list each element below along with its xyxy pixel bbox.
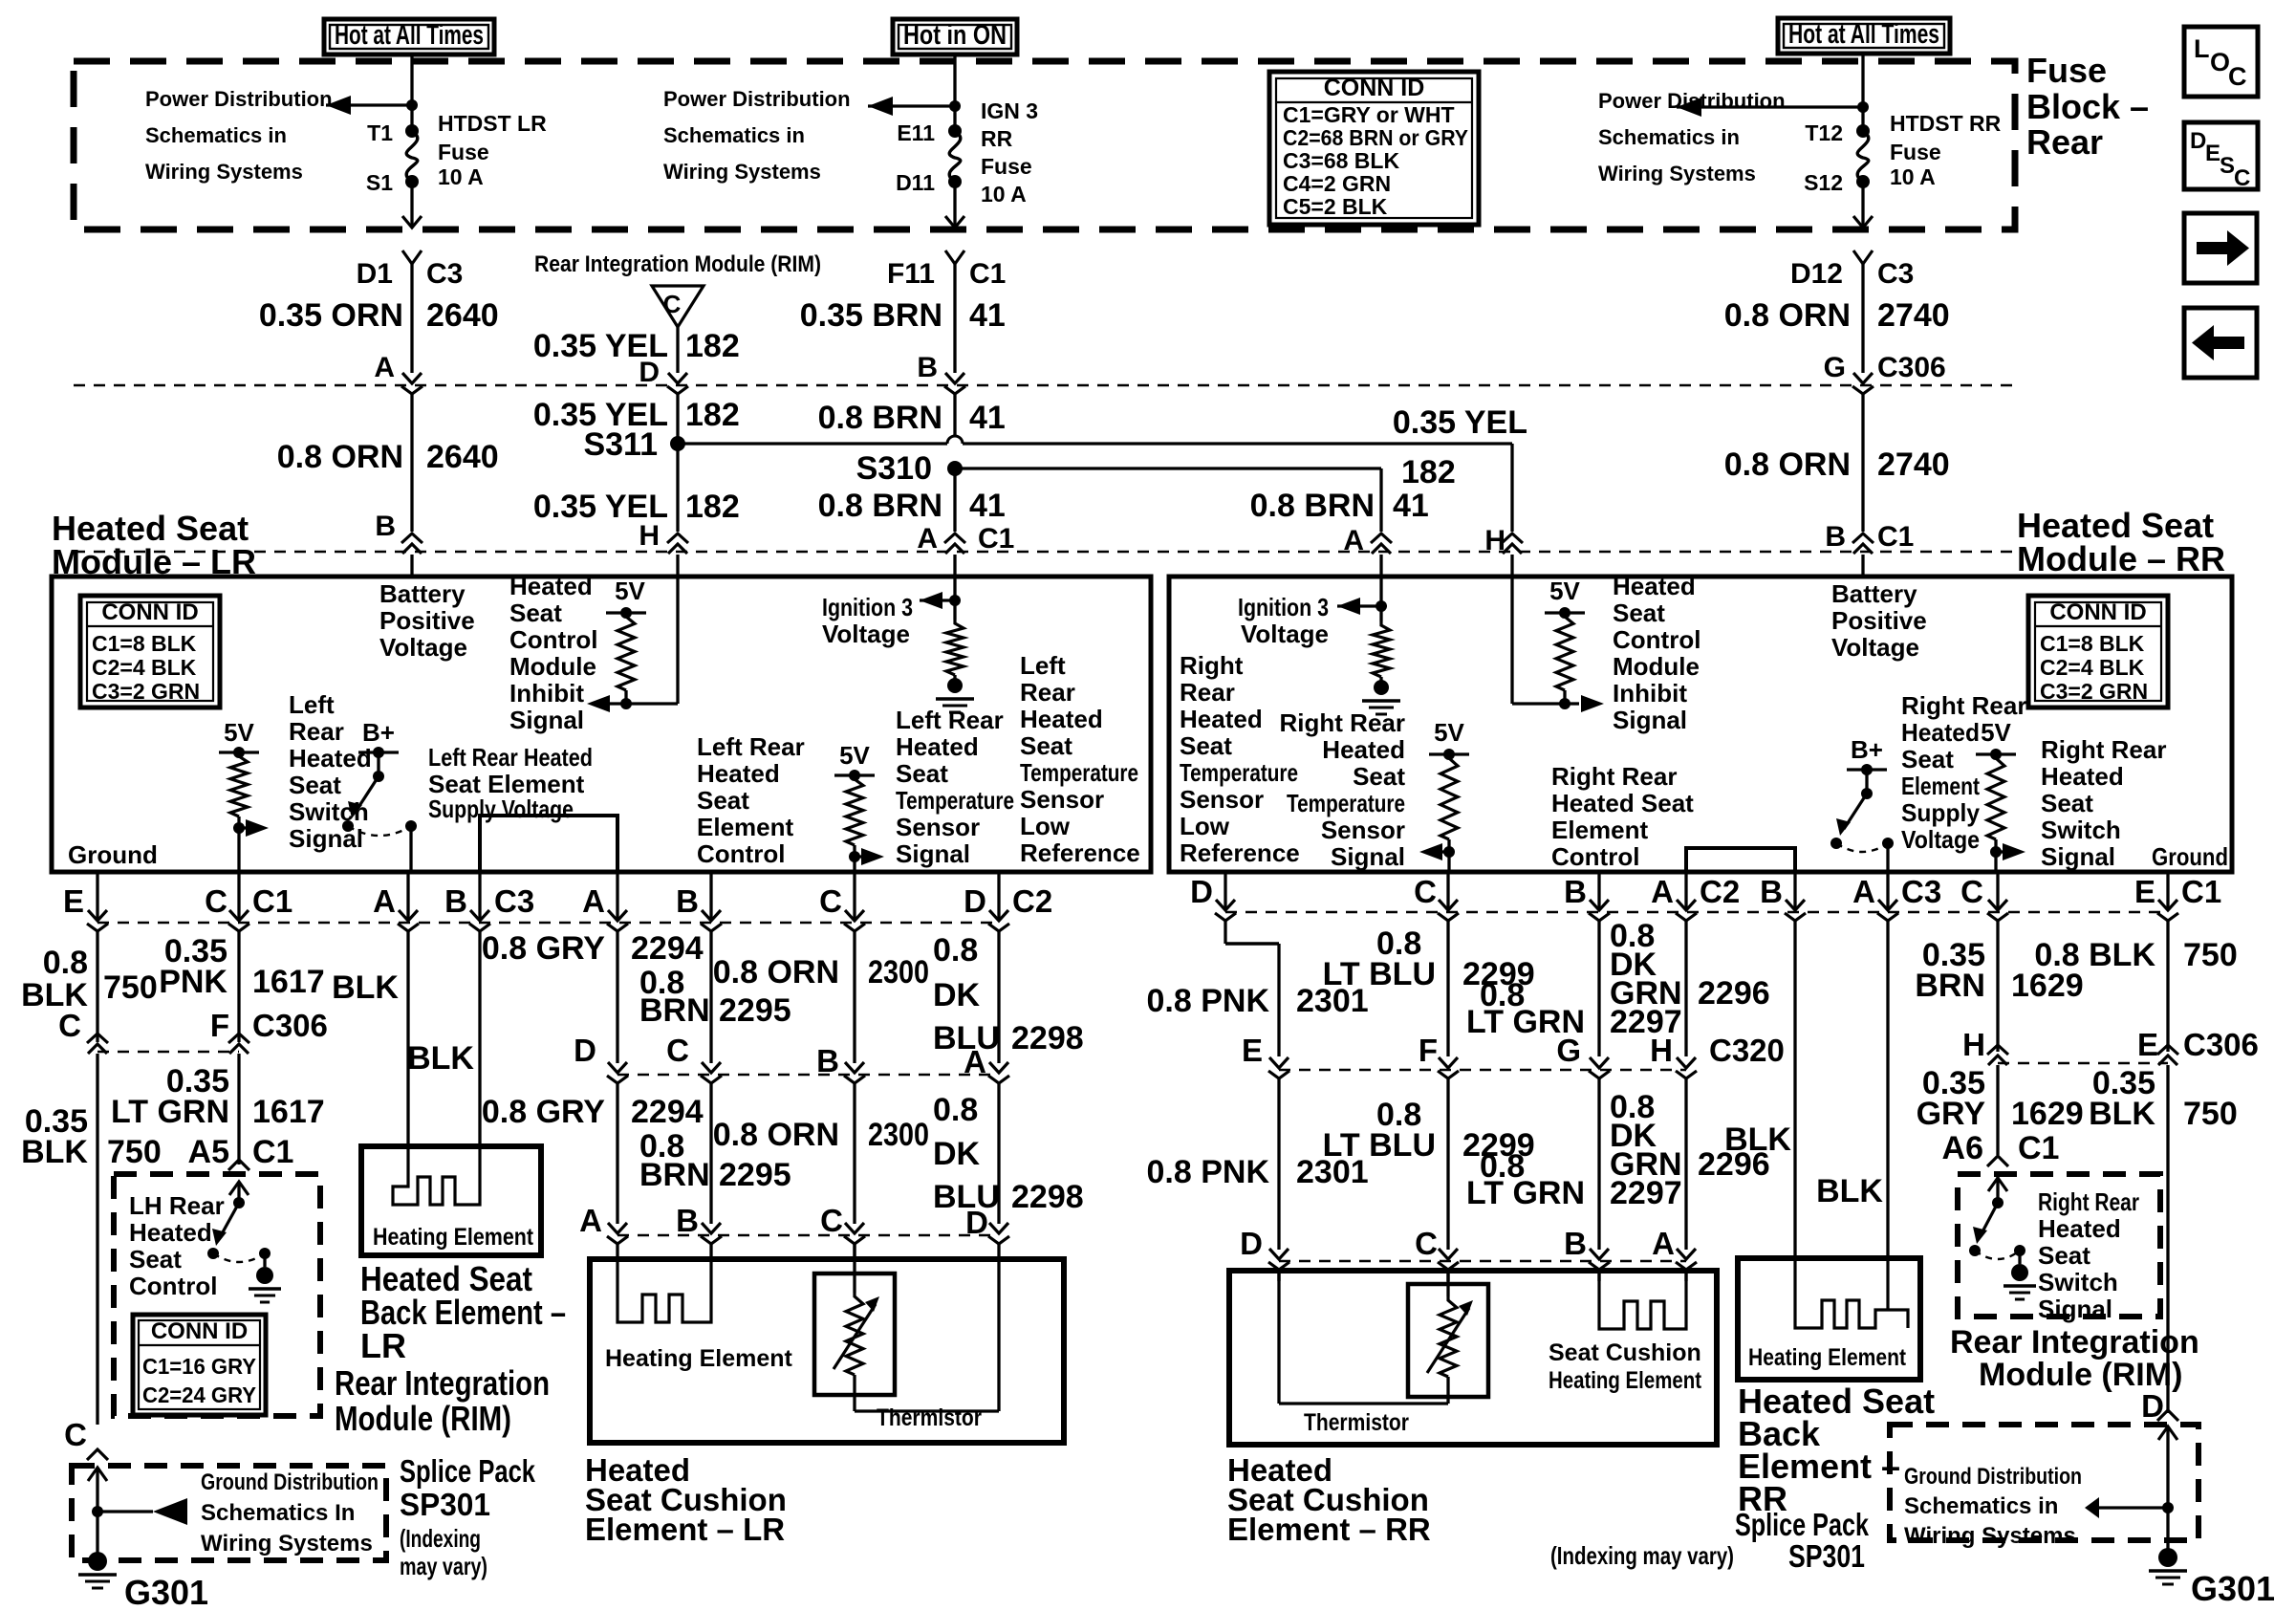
svg-text:182: 182 bbox=[685, 328, 740, 364]
svg-text:BRN: BRN bbox=[639, 992, 710, 1029]
svg-text:Element – RR: Element – RR bbox=[1227, 1512, 1431, 1547]
switch right rear heated seat bbox=[1996, 1176, 1999, 1203]
LOC icon box bbox=[2184, 27, 2258, 97]
wire BRN 41 fuse block to line1 bbox=[945, 250, 964, 264]
svg-text:F11: F11 bbox=[887, 258, 935, 290]
ground G301 LR bbox=[88, 1552, 107, 1571]
svg-text:0.8 BRN: 0.8 BRN bbox=[1250, 488, 1375, 524]
power distribution branch arrow LR bbox=[326, 103, 412, 106]
svg-text:G301: G301 bbox=[2191, 1569, 2275, 1608]
svg-text:Heated: Heated bbox=[289, 744, 372, 773]
wire GRY 2294 pin A2 to line4b bbox=[616, 872, 618, 921]
svg-text:Module: Module bbox=[509, 652, 596, 681]
svg-text:A: A bbox=[582, 883, 605, 919]
CONN ID table fuse block bbox=[1269, 72, 1479, 225]
svg-text:Rear: Rear bbox=[1020, 678, 1075, 707]
svg-text:C: C bbox=[2228, 62, 2247, 91]
svg-text:Seat: Seat bbox=[1613, 599, 1665, 627]
svg-text:Fuse: Fuse bbox=[438, 140, 489, 164]
svg-text:Rear Integration Module (RIM): Rear Integration Module (RIM) bbox=[534, 251, 821, 277]
svg-text:Ignition 3: Ignition 3 bbox=[1238, 593, 1329, 621]
svg-text:G: G bbox=[1824, 352, 1846, 383]
svg-text:C1: C1 bbox=[252, 883, 292, 919]
svg-text:C306: C306 bbox=[2183, 1027, 2259, 1062]
svg-text:E11: E11 bbox=[897, 120, 935, 145]
wire YEL 182 down to RR module H bbox=[1510, 444, 1513, 532]
svg-text:Right Rear: Right Rear bbox=[1280, 708, 1405, 737]
wires into cushion element RR bbox=[1277, 1270, 1280, 1281]
svg-text:Heated Seat: Heated Seat bbox=[1551, 789, 1694, 817]
svg-text:0.35 BRN: 0.35 BRN bbox=[800, 297, 942, 334]
svg-text:750: 750 bbox=[2183, 937, 2238, 973]
svg-text:Right Rear: Right Rear bbox=[1901, 691, 2026, 720]
svg-text:Schematics in: Schematics in bbox=[1598, 125, 1740, 149]
svg-text:D: D bbox=[964, 883, 986, 919]
RIM triangle connector C bbox=[652, 286, 704, 327]
svg-text:Ground Distribution: Ground Distribution bbox=[201, 1469, 379, 1495]
svg-text:Heating Element: Heating Element bbox=[1748, 1344, 1907, 1371]
svg-text:Signal: Signal bbox=[509, 706, 584, 734]
svg-text:Rear: Rear bbox=[1180, 678, 1235, 707]
wire fuse3 feed from Hot at All Times RR bbox=[1861, 54, 1864, 131]
svg-text:Supply: Supply bbox=[1901, 798, 1981, 827]
svg-text:C2: C2 bbox=[1012, 883, 1052, 919]
svg-text:DK: DK bbox=[933, 977, 981, 1013]
svg-text:Seat: Seat bbox=[896, 759, 948, 788]
svg-text:Heated: Heated bbox=[1020, 705, 1103, 733]
svg-text:Rear Integration: Rear Integration bbox=[1950, 1324, 2199, 1361]
svg-text:Schematics in: Schematics in bbox=[145, 123, 287, 147]
thermistor LR bbox=[814, 1274, 895, 1395]
svg-text:Temperature: Temperature bbox=[1180, 758, 1298, 787]
svg-text:Element: Element bbox=[697, 813, 793, 841]
switch signal arrow LR bbox=[239, 826, 252, 829]
svg-text:C: C bbox=[666, 1033, 689, 1068]
svg-text:Positive: Positive bbox=[379, 606, 475, 635]
heating element trace cushion LR bbox=[617, 1259, 711, 1322]
CONN ID table RIM LR bbox=[133, 1315, 266, 1415]
RIM dashed box LH rear heated seat control bbox=[114, 1174, 320, 1416]
wire PNK 2301 pin D with jog bbox=[1224, 872, 1226, 910]
wire DK BLU 2298 line4b to line5 bbox=[997, 1083, 1000, 1224]
svg-text:B: B bbox=[917, 352, 938, 383]
svg-text:PNK: PNK bbox=[159, 964, 227, 1000]
svg-text:0.8 ORN: 0.8 ORN bbox=[277, 439, 403, 475]
svg-text:A: A bbox=[1652, 1226, 1675, 1261]
svg-text:C: C bbox=[58, 1008, 81, 1043]
svg-text:C1: C1 bbox=[1877, 521, 1914, 553]
svg-text:Inhibit: Inhibit bbox=[509, 679, 584, 708]
heated seat module LR box bbox=[52, 577, 1151, 872]
svg-text:Seat Cushion: Seat Cushion bbox=[1549, 1339, 1701, 1366]
svg-text:CONN ID: CONN ID bbox=[2049, 599, 2146, 625]
wire BLK 750 line4rr to ground box RR bbox=[2166, 1065, 2169, 1413]
svg-text:Voltage: Voltage bbox=[1831, 633, 1919, 662]
svg-text:B: B bbox=[1825, 521, 1846, 553]
svg-text:C1: C1 bbox=[252, 1134, 293, 1170]
ground distribution arrow LR bbox=[97, 1510, 153, 1513]
svg-text:Low: Low bbox=[1180, 812, 1230, 840]
svg-text:C2=4 BLK: C2=4 BLK bbox=[92, 655, 197, 680]
svg-text:Temperature: Temperature bbox=[1020, 758, 1138, 787]
svg-text:A: A bbox=[1651, 874, 1674, 909]
svg-text:Module: Module bbox=[1613, 652, 1700, 681]
heated seat cushion element LR box bbox=[590, 1259, 1064, 1443]
svg-text:2298: 2298 bbox=[1011, 1020, 1084, 1056]
svg-text:D: D bbox=[574, 1033, 596, 1068]
svg-text:Ground: Ground bbox=[2152, 842, 2228, 871]
wire element supply to pin A LR bbox=[409, 826, 412, 872]
svg-text:Wiring Systems: Wiring Systems bbox=[1904, 1523, 2076, 1549]
svg-text:Signal: Signal bbox=[1331, 842, 1405, 871]
svg-text:Control: Control bbox=[697, 839, 785, 868]
CONN ID table RR module bbox=[2028, 596, 2168, 708]
svg-text:BRN: BRN bbox=[639, 1157, 710, 1193]
svg-text:Rear: Rear bbox=[289, 717, 344, 746]
inhibit signal arrow RR bbox=[1565, 702, 1579, 705]
svg-text:C: C bbox=[1415, 1226, 1438, 1261]
svg-text:Seat: Seat bbox=[1901, 745, 1954, 773]
svg-text:0.8: 0.8 bbox=[933, 932, 978, 969]
connector line 3 RR dashed bbox=[1225, 911, 2168, 914]
resistor ignition RR bbox=[1373, 621, 1390, 677]
svg-text:A: A bbox=[373, 883, 396, 919]
wire BLK 750 pin E to line4 bbox=[96, 872, 98, 921]
arrow left icon box bbox=[2184, 308, 2257, 378]
svg-text:Signal: Signal bbox=[2038, 1295, 2112, 1323]
svg-text:Power Distribution: Power Distribution bbox=[145, 87, 333, 111]
svg-text:Sensor: Sensor bbox=[1020, 785, 1104, 814]
svg-text:Switch: Switch bbox=[2038, 1268, 2118, 1296]
connector line 5 RR dashed bbox=[1279, 1260, 1686, 1263]
wire thermistor loop LR bbox=[853, 1375, 856, 1411]
svg-text:A: A bbox=[579, 1203, 602, 1238]
svg-text:Left: Left bbox=[1020, 651, 1066, 680]
svg-text:T1: T1 bbox=[367, 120, 393, 145]
svg-text:41: 41 bbox=[969, 297, 1006, 334]
svg-text:2300: 2300 bbox=[868, 954, 929, 991]
svg-text:may vary): may vary) bbox=[400, 1552, 487, 1580]
svg-text:Heated: Heated bbox=[1613, 572, 1696, 600]
svg-text:A: A bbox=[964, 1044, 986, 1079]
svg-text:Heated: Heated bbox=[1322, 735, 1405, 764]
wire LT BLU 2299 pin C to line4 bbox=[1446, 872, 1449, 910]
hot at all times box LR bbox=[324, 19, 494, 54]
svg-text:Ground: Ground bbox=[68, 840, 158, 869]
svg-text:C1: C1 bbox=[978, 523, 1014, 555]
svg-text:L: L bbox=[2194, 34, 2210, 63]
connector line 1 dashed (C306 row) bbox=[74, 384, 2015, 387]
svg-text:0.8 ORN: 0.8 ORN bbox=[1724, 446, 1851, 483]
svg-text:Seat: Seat bbox=[697, 786, 749, 815]
wire inside ground box RR bbox=[2158, 1426, 2177, 1440]
svg-text:Seat: Seat bbox=[1353, 762, 1405, 791]
wire ignition feed into RR module bbox=[1379, 577, 1382, 621]
svg-text:HTDST RR: HTDST RR bbox=[1890, 111, 2002, 136]
wire ORN 2300 pin C to line4b bbox=[853, 872, 856, 921]
svg-text:C: C bbox=[1960, 874, 1983, 909]
wire H inside LR module to inhibit resistor bbox=[676, 577, 679, 704]
svg-text:F: F bbox=[210, 1008, 229, 1043]
svg-text:2740: 2740 bbox=[1877, 297, 1950, 334]
svg-text:Seat: Seat bbox=[2038, 1241, 2090, 1270]
heated seat back element RR box bbox=[1738, 1258, 1920, 1380]
svg-text:A: A bbox=[1852, 874, 1875, 909]
svg-text:Heated: Heated bbox=[129, 1218, 212, 1247]
svg-text:C1=GRY or WHT: C1=GRY or WHT bbox=[1283, 102, 1455, 127]
svg-text:Battery: Battery bbox=[1831, 579, 1917, 608]
svg-text:2294: 2294 bbox=[631, 930, 704, 967]
svg-text:C1=8 BLK: C1=8 BLK bbox=[92, 631, 197, 656]
svg-text:B: B bbox=[816, 1043, 839, 1078]
svg-text:C3: C3 bbox=[494, 883, 534, 919]
svg-text:Inhibit: Inhibit bbox=[1613, 679, 1687, 708]
svg-text:DK: DK bbox=[933, 1136, 981, 1172]
svg-text:Reference: Reference bbox=[1020, 838, 1140, 867]
wire GRY 1629 line4rr to RIM box bbox=[1996, 1065, 1999, 1155]
svg-text:0.8: 0.8 bbox=[43, 945, 88, 981]
svg-text:Schematics in: Schematics in bbox=[663, 123, 805, 147]
svg-text:C: C bbox=[2234, 165, 2250, 191]
svg-text:D1: D1 bbox=[357, 258, 393, 290]
svg-text:Fuse: Fuse bbox=[981, 154, 1032, 179]
svg-text:10 A: 10 A bbox=[438, 164, 484, 189]
svg-text:Right Rear: Right Rear bbox=[2038, 1187, 2139, 1216]
svg-text:Module (RIM): Module (RIM) bbox=[335, 1399, 511, 1438]
wire DK BLU 2298 pin D to line4b bbox=[997, 872, 1000, 921]
wire BLK 750 line4 down to ground box bbox=[96, 1054, 98, 1425]
svg-text:BLK: BLK bbox=[21, 1134, 88, 1170]
svg-text:1629: 1629 bbox=[2011, 1096, 2084, 1132]
svg-text:0.35 YEL: 0.35 YEL bbox=[1393, 404, 1527, 441]
connector line 5 LR dashed bbox=[617, 1234, 999, 1237]
svg-text:CONN ID: CONN ID bbox=[101, 599, 198, 625]
svg-text:2296: 2296 bbox=[1698, 975, 1770, 1012]
ground symbol switch RR bbox=[2011, 1264, 2028, 1281]
svg-text:0.8 BLK: 0.8 BLK bbox=[2034, 937, 2155, 973]
wire fuse2 to fuse block edge bbox=[953, 182, 956, 227]
svg-text:Heated: Heated bbox=[1901, 718, 1980, 747]
wire element supply to pin A RR bbox=[1886, 843, 1889, 872]
svg-text:0.8 BRN: 0.8 BRN bbox=[818, 488, 942, 524]
svg-text:0.8 ORN: 0.8 ORN bbox=[1724, 297, 1851, 334]
heating element trace back LR bbox=[393, 1146, 480, 1205]
svg-text:C: C bbox=[1414, 874, 1437, 909]
wire ignition feed into LR module bbox=[953, 577, 956, 620]
svg-text:Seat: Seat bbox=[1180, 731, 1232, 760]
wire fuse3 to fuse block edge bbox=[1861, 182, 1864, 227]
svg-text:BLK: BLK bbox=[1724, 1121, 1791, 1158]
wire ORN 2300 line4b to line5 bbox=[853, 1083, 856, 1224]
svg-text:Rear: Rear bbox=[2026, 122, 2103, 162]
svg-text:LR: LR bbox=[360, 1326, 406, 1365]
svg-text:LT BLU: LT BLU bbox=[1323, 956, 1436, 992]
svg-text:A6: A6 bbox=[1942, 1130, 1983, 1166]
inhibit signal arrow LR bbox=[600, 702, 626, 705]
wire BLK pin B2 to back element RR bbox=[1793, 872, 1796, 910]
svg-text:C2=4 BLK: C2=4 BLK bbox=[2040, 655, 2145, 680]
svg-text:E: E bbox=[63, 883, 84, 919]
svg-text:182: 182 bbox=[1401, 454, 1456, 490]
fuse F1 HTDST LR bbox=[405, 124, 419, 138]
svg-text:GRN: GRN bbox=[1610, 1146, 1682, 1183]
svg-text:Supply Voltage: Supply Voltage bbox=[428, 795, 574, 823]
power distribution branch arrow mid bbox=[868, 104, 955, 107]
svg-text:C3: C3 bbox=[1901, 874, 1941, 909]
svg-text:T12: T12 bbox=[1805, 120, 1843, 145]
svg-text:C: C bbox=[205, 883, 227, 919]
switch signal arrow RR bbox=[1996, 850, 2009, 853]
wire fuse2 feed from Hot in ON bbox=[953, 54, 956, 131]
svg-text:C3=2 GRN: C3=2 GRN bbox=[2040, 679, 2148, 704]
svg-text:O: O bbox=[2210, 48, 2230, 76]
connector line 3 LR dashed bbox=[97, 922, 999, 925]
wire YEL 182 from RIM to line1 bbox=[676, 327, 679, 373]
svg-text:Seat: Seat bbox=[289, 771, 341, 799]
bridge link element control LR bbox=[480, 816, 617, 872]
wire BLK pin B to back element LR bbox=[478, 872, 481, 921]
svg-text:Heated: Heated bbox=[1180, 705, 1263, 733]
svg-text:0.8 PNK: 0.8 PNK bbox=[1147, 1154, 1270, 1190]
svg-text:1617: 1617 bbox=[252, 1094, 325, 1130]
wire ORN 2740 line1 to RR module bbox=[1861, 394, 1864, 532]
svg-text:B: B bbox=[375, 511, 396, 542]
svg-text:Hot at All Times: Hot at All Times bbox=[1788, 19, 1939, 50]
svg-text:Ground Distribution: Ground Distribution bbox=[1904, 1464, 2082, 1490]
svg-text:Heating Element: Heating Element bbox=[605, 1345, 793, 1372]
svg-text:E: E bbox=[2205, 141, 2220, 166]
svg-text:2300: 2300 bbox=[868, 1117, 929, 1153]
wire inside ground box LR bbox=[88, 1468, 107, 1481]
svg-text:Block –: Block – bbox=[2026, 87, 2149, 126]
svg-text:Left Rear Heated: Left Rear Heated bbox=[428, 743, 593, 772]
wire BRN 41 S310 to LR module A C1 bbox=[953, 468, 956, 532]
svg-text:0.8 BRN: 0.8 BRN bbox=[818, 400, 942, 436]
svg-text:182: 182 bbox=[685, 489, 740, 525]
svg-text:C1: C1 bbox=[2181, 874, 2221, 909]
ground G301 RR bbox=[2158, 1548, 2177, 1567]
wire GRY 2294 line4b to line5 bbox=[616, 1083, 618, 1224]
svg-text:Switch: Switch bbox=[2041, 816, 2121, 844]
heated seat back element LR box bbox=[361, 1146, 541, 1255]
svg-text:2295: 2295 bbox=[719, 1157, 791, 1193]
wire H inside RR module to inhibit resistor bbox=[1510, 577, 1513, 704]
arrow right icon box bbox=[2184, 213, 2257, 283]
svg-text:Seat: Seat bbox=[509, 599, 562, 627]
wire BLK pin A to back element LR bbox=[406, 872, 409, 921]
svg-text:C4=2 GRN: C4=2 GRN bbox=[1283, 171, 1391, 196]
wire DK GRN 2296 line4 to line5 bbox=[1684, 1078, 1687, 1250]
svg-text:Schematics in: Schematics in bbox=[1904, 1493, 2058, 1519]
svg-text:Voltage: Voltage bbox=[1241, 620, 1329, 648]
svg-text:S1: S1 bbox=[366, 170, 393, 195]
svg-text:BLK: BLK bbox=[407, 1040, 474, 1077]
G301 ground box RR bbox=[1890, 1425, 2199, 1540]
G301 ground box LR bbox=[72, 1466, 386, 1560]
svg-text:SP301: SP301 bbox=[400, 1487, 490, 1522]
svg-text:Temperature: Temperature bbox=[896, 786, 1014, 815]
svg-text:Right Rear: Right Rear bbox=[1551, 762, 1677, 791]
svg-text:A: A bbox=[374, 352, 395, 383]
svg-text:C: C bbox=[820, 1203, 843, 1238]
wire LT BLU 2299 line4 to line5 bbox=[1446, 1078, 1449, 1250]
svg-text:Signal: Signal bbox=[896, 839, 970, 868]
wire BRN 2295 line4b to line5 bbox=[709, 1083, 712, 1224]
svg-text:0.35 ORN: 0.35 ORN bbox=[259, 297, 403, 334]
svg-text:41: 41 bbox=[1393, 488, 1429, 524]
svg-text:C306: C306 bbox=[1877, 352, 1946, 383]
svg-text:Temperature: Temperature bbox=[1287, 789, 1405, 817]
svg-text:B: B bbox=[444, 883, 467, 919]
svg-text:Seat: Seat bbox=[129, 1245, 182, 1274]
svg-text:BLK: BLK bbox=[332, 969, 399, 1006]
wire YEL 182 line1 to S311 bbox=[676, 394, 679, 437]
svg-text:G301: G301 bbox=[124, 1573, 208, 1611]
svg-text:B: B bbox=[676, 1203, 699, 1238]
svg-text:D: D bbox=[1240, 1226, 1263, 1261]
wire switch signal to pin C RR bbox=[1994, 852, 1997, 872]
heating element trace cushion RR bbox=[1599, 1270, 1686, 1329]
svg-text:Heated: Heated bbox=[2038, 1214, 2121, 1243]
svg-text:GRY: GRY bbox=[1917, 1096, 1986, 1132]
ground symbol ignition LR bbox=[947, 678, 963, 693]
heating element trace back RR bbox=[1795, 1258, 1908, 1328]
svg-text:Right Rear: Right Rear bbox=[2041, 735, 2166, 764]
svg-text:D: D bbox=[639, 357, 660, 388]
svg-text:Element – LR: Element – LR bbox=[585, 1512, 785, 1547]
svg-text:B+: B+ bbox=[1851, 735, 1883, 764]
svg-text:Power Distribution: Power Distribution bbox=[663, 87, 851, 111]
connector line 4b LR dashed bbox=[617, 1074, 999, 1077]
wire thermistor loop RR bbox=[1277, 1270, 1280, 1404]
svg-text:F: F bbox=[1419, 1033, 1438, 1068]
svg-text:Control: Control bbox=[509, 625, 597, 654]
wire LT GRN 2297 line4 to line5 bbox=[1597, 1078, 1600, 1250]
svg-text:0.8 GRY: 0.8 GRY bbox=[482, 930, 605, 967]
svg-text:E: E bbox=[2137, 1027, 2158, 1062]
svg-text:C1=8 BLK: C1=8 BLK bbox=[2040, 631, 2145, 656]
svg-text:Voltage: Voltage bbox=[822, 620, 910, 648]
wire PNK 2301 line4 to line5 bbox=[1277, 1078, 1280, 1250]
svg-text:C3: C3 bbox=[1877, 258, 1914, 290]
wires into cushion element LR bbox=[616, 1244, 618, 1259]
svg-text:GRN: GRN bbox=[1610, 975, 1682, 1012]
heated seat module RR box bbox=[1169, 577, 2232, 872]
svg-text:Schematics In: Schematics In bbox=[201, 1500, 355, 1526]
svg-text:Battery: Battery bbox=[379, 579, 466, 608]
svg-text:C306: C306 bbox=[252, 1008, 328, 1043]
wire temp sensor to pin C RR bbox=[1447, 852, 1450, 872]
wire ORN 2640 fuse block to line1 bbox=[402, 250, 422, 264]
connector line 2 dashed (module connectors) bbox=[74, 551, 2015, 554]
svg-text:Left Rear: Left Rear bbox=[896, 706, 1004, 734]
svg-text:2640: 2640 bbox=[426, 297, 499, 334]
svg-text:41: 41 bbox=[969, 400, 1006, 436]
svg-text:D11: D11 bbox=[896, 170, 935, 195]
svg-text:Control: Control bbox=[1613, 625, 1700, 654]
svg-text:182: 182 bbox=[685, 397, 740, 433]
svg-text:0.8: 0.8 bbox=[933, 1092, 978, 1128]
wire ORN 2740 fuse block to line1 bbox=[1853, 250, 1873, 264]
svg-text:Splice Pack: Splice Pack bbox=[1735, 1507, 1869, 1542]
temp sensor signal arrow RR bbox=[1436, 850, 1449, 853]
svg-text:S310: S310 bbox=[856, 450, 932, 487]
DESC icon box bbox=[2184, 122, 2258, 189]
wire BRN 41 S310 branch to RR module A bbox=[955, 467, 1381, 469]
svg-text:C1=16 GRY: C1=16 GRY bbox=[142, 1354, 256, 1379]
svg-text:C320: C320 bbox=[1709, 1033, 1785, 1068]
ground distribution arrow RR bbox=[2099, 1506, 2168, 1509]
